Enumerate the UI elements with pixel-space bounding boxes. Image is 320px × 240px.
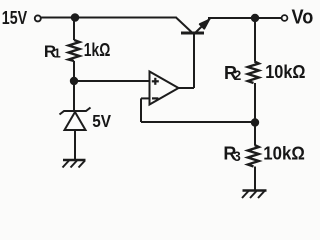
svg-text:10kΩ: 10kΩ	[263, 144, 305, 164]
svg-text:5V: 5V	[92, 111, 111, 131]
svg-text:2: 2	[234, 68, 242, 83]
svg-text:1kΩ: 1kΩ	[84, 40, 111, 60]
svg-text:1: 1	[54, 46, 61, 61]
svg-text:15V: 15V	[2, 8, 27, 28]
svg-text:10kΩ: 10kΩ	[265, 62, 305, 82]
svg-text:3: 3	[233, 149, 241, 164]
svg-text:Vo: Vo	[292, 6, 314, 28]
